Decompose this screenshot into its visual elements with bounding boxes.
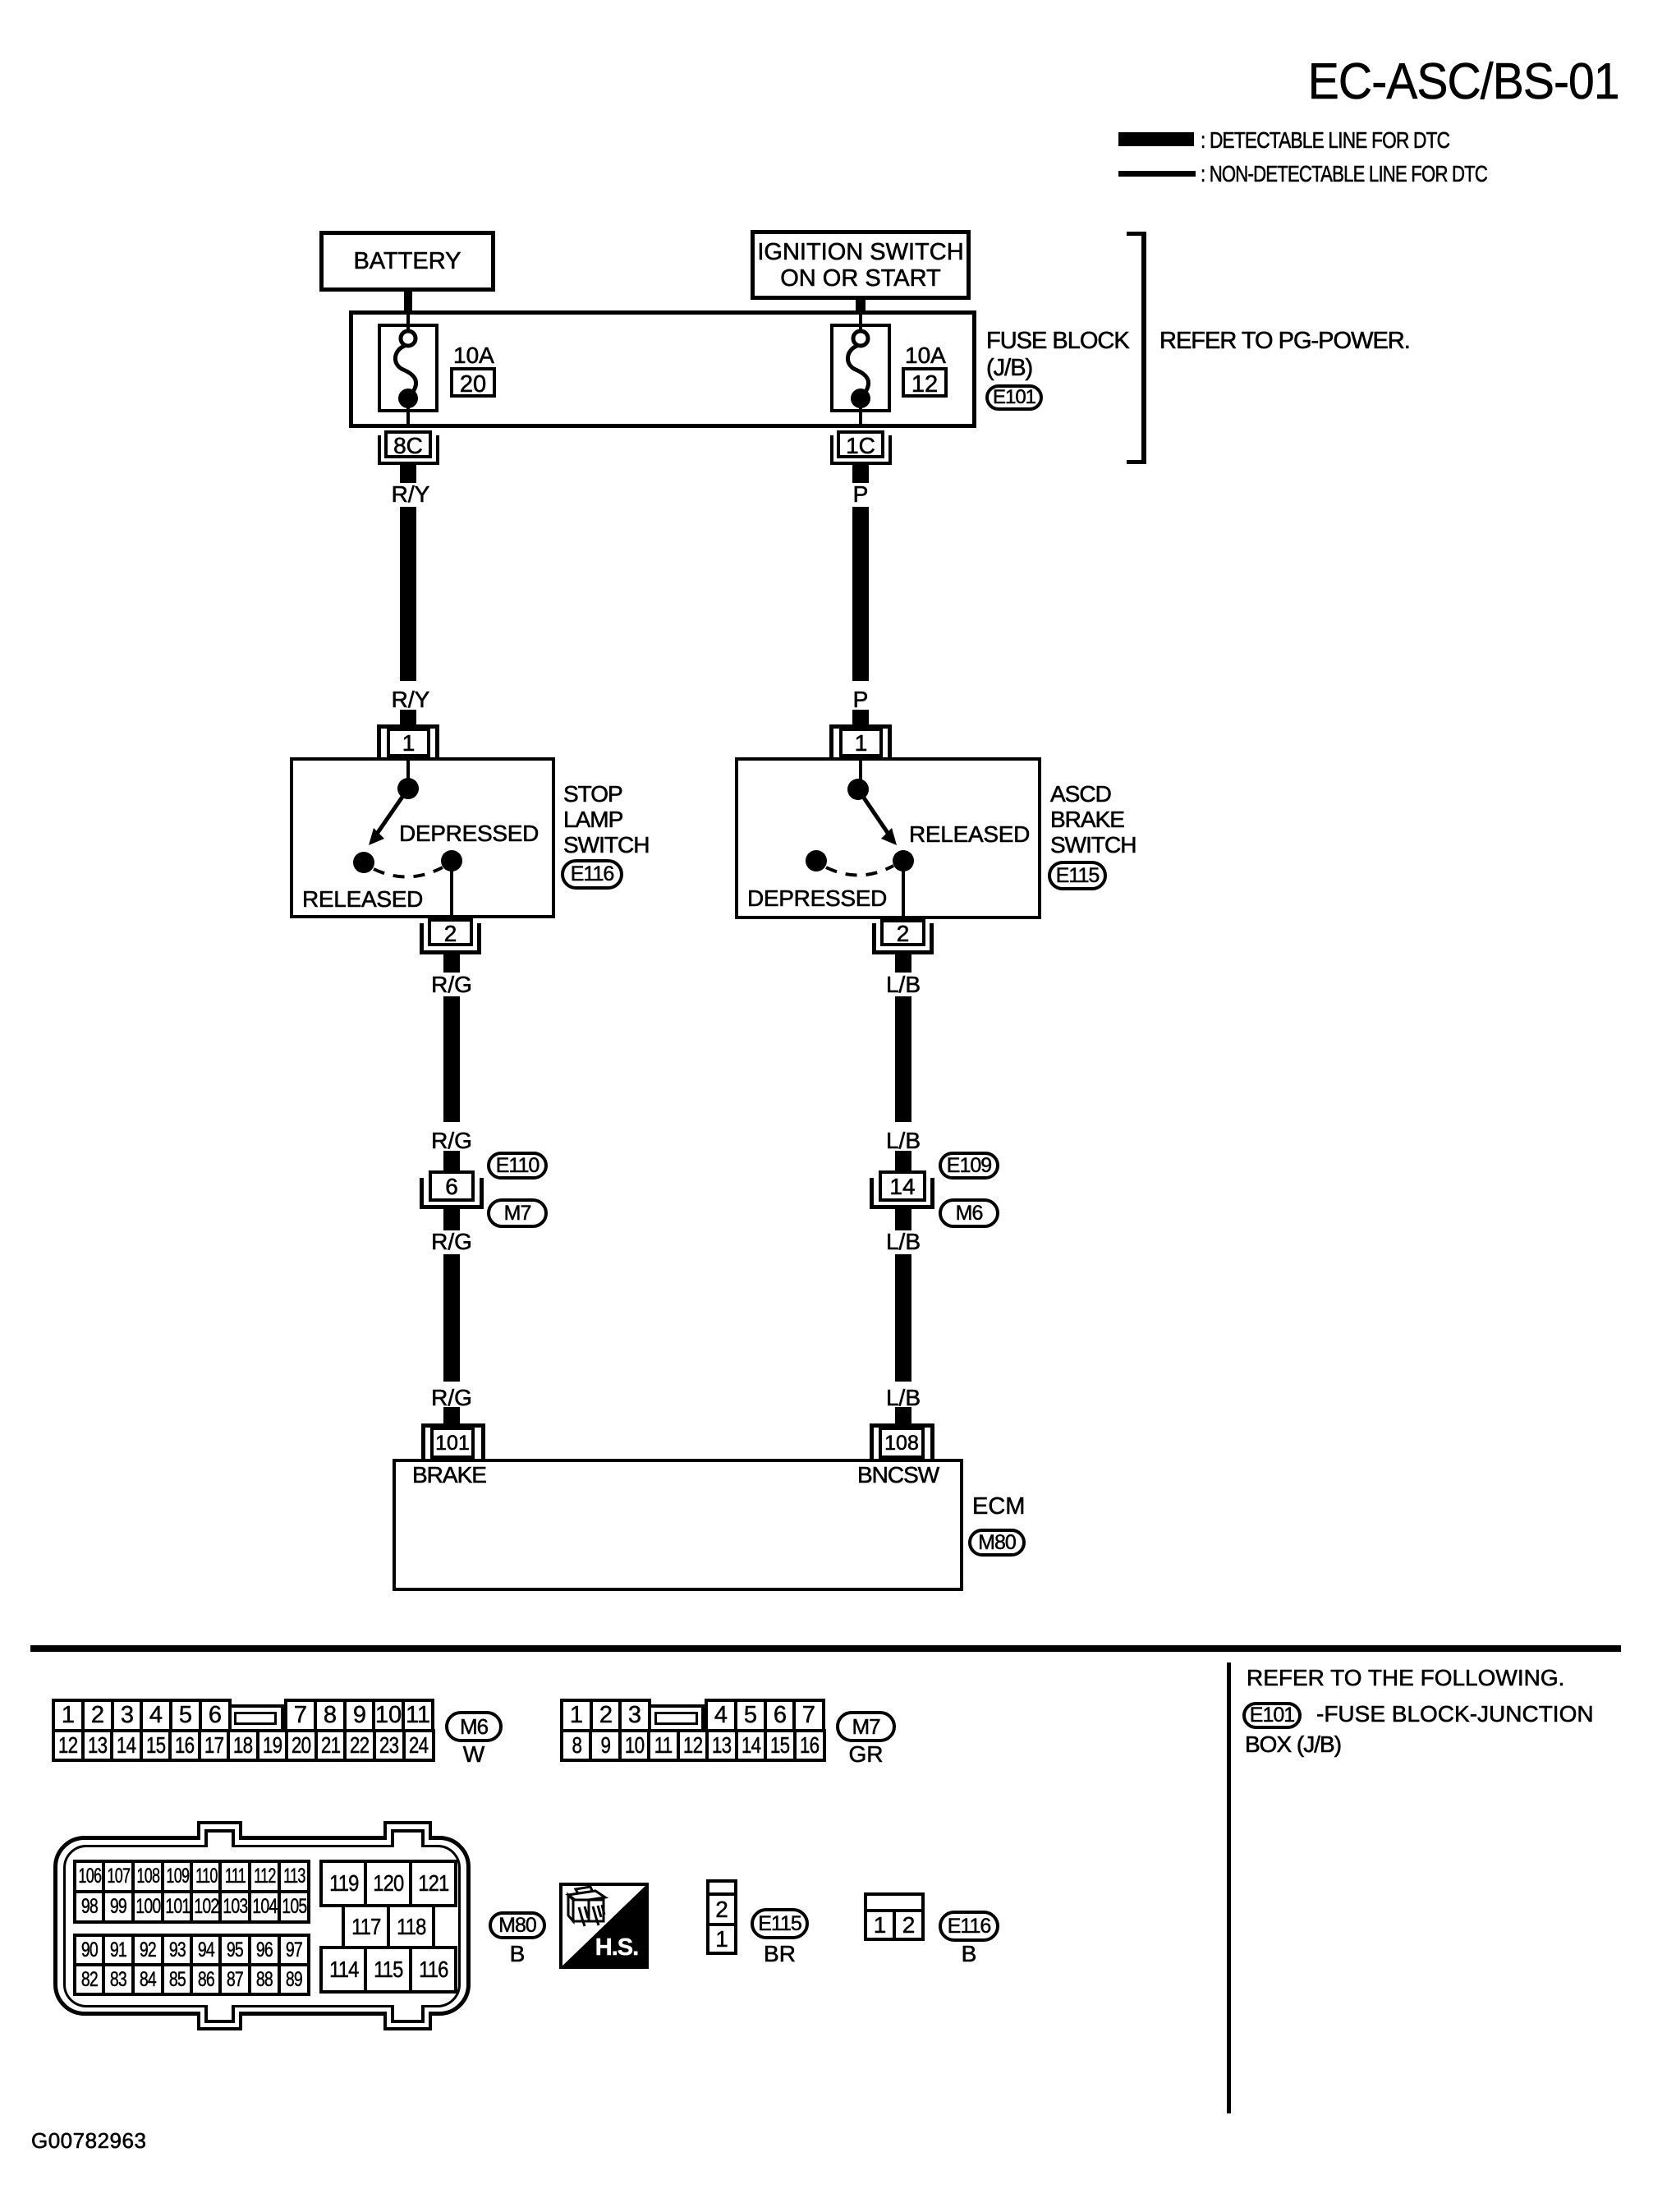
stop lamp switch box <box>290 757 555 918</box>
wire label P (lower) <box>826 688 895 713</box>
connector M7 pin grid <box>560 1699 593 1732</box>
stop lamp switch contacts <box>290 757 555 918</box>
connector 8C <box>384 430 432 458</box>
connector 2 of ASCD brake switch <box>880 919 925 946</box>
ECM box <box>393 1459 963 1591</box>
connector 1C <box>837 430 884 458</box>
connector ref M80 oval (bottom) <box>489 1911 546 1939</box>
wire R/Y detectable run <box>400 507 416 681</box>
connector M80 top tab 1 <box>197 1821 242 1840</box>
wire battery to fuse block <box>404 292 412 311</box>
label -FUSE BLOCK-JUNCTION <box>1316 1702 1594 1727</box>
label ECM <box>972 1494 1025 1520</box>
connector 6 (E110/M7) <box>429 1170 475 1202</box>
wire label R/G (2) <box>417 1129 486 1154</box>
connector M80 pin grid <box>73 1860 106 1893</box>
label W (M6 color) <box>445 1742 503 1768</box>
legend detectable line text <box>1201 128 1449 154</box>
label REFER TO THE FOLLOWING <box>1247 1666 1564 1691</box>
connector M80 top tab 2 <box>383 1821 432 1840</box>
wire label R/Y (upper) <box>376 482 445 508</box>
label STOP LAMP SWITCH <box>563 782 622 807</box>
wire stub above connector 1 (right) <box>852 710 869 725</box>
wire stub above connector 1 (left) <box>400 710 416 725</box>
connector 108 (ECM BNCSW) <box>870 1423 934 1428</box>
label FUSE BLOCK <box>986 329 1129 355</box>
legend detectable line sample bar <box>1118 132 1194 146</box>
fuse F20 housing <box>378 324 439 412</box>
connector ref M7 oval (bottom) <box>836 1711 896 1742</box>
wire stub above connector 14 <box>895 1151 911 1170</box>
fuse F20 symbol <box>374 307 448 430</box>
label BNCSW pin name <box>857 1463 939 1488</box>
wire L/B run 1 <box>895 996 911 1122</box>
bracket refer to pg-power <box>1141 232 1146 464</box>
connector ref E101 oval <box>985 384 1043 411</box>
wire label R/G (3) <box>417 1230 486 1255</box>
label BRAKE pin name <box>412 1463 486 1488</box>
fuse F20 rating 10A <box>453 343 494 369</box>
connector 1 of ASCD brake switch <box>829 724 892 729</box>
wire stub below connector 6 <box>443 1209 460 1230</box>
wire label R/G (1) <box>417 973 486 998</box>
connector ref E115 oval (bottom) <box>751 1908 809 1939</box>
vertical divider line <box>1227 1662 1231 2113</box>
label DEPRESSED (stop lamp switch) <box>399 821 539 847</box>
label DEPRESSED (ASCD brake switch) <box>747 886 887 912</box>
connector M80 shell <box>53 1836 471 2016</box>
wire stub below connector 14 <box>895 1209 911 1230</box>
title EC-ASC/BS-01 <box>1308 54 1618 110</box>
wire stub below 8C <box>400 465 416 483</box>
wire stub below connector 2 (left) <box>443 954 460 973</box>
connector M6 pin grid <box>52 1699 85 1732</box>
connector ref M7 oval <box>487 1198 548 1228</box>
ASCD brake switch contacts <box>735 757 1041 919</box>
wire stub above connector 6 <box>443 1151 460 1170</box>
connector 1 of stop lamp switch <box>377 724 439 729</box>
wire stub above connector 101 <box>443 1407 460 1423</box>
connector M80 bottom tab 1 <box>197 2012 242 2030</box>
fuse F12 symbol <box>826 307 900 430</box>
label GR (M7 color) <box>836 1742 896 1768</box>
ASCD brake switch box <box>735 757 1041 919</box>
wire L/B run 2 <box>895 1254 911 1382</box>
wire label L/B (3) <box>869 1230 938 1255</box>
connector 2 of stop lamp switch <box>428 918 473 946</box>
connector ref E116 oval <box>561 859 623 890</box>
connector E116 face view <box>864 1892 925 1912</box>
wire label R/G (4) <box>417 1386 486 1411</box>
label RELEASED (stop lamp switch) <box>302 887 423 913</box>
fuse F12 number box <box>902 367 948 398</box>
battery box <box>319 231 495 292</box>
ignition switch box <box>751 230 971 300</box>
wire stub above connector 108 <box>895 1407 911 1423</box>
label B (E116 color) <box>939 1942 999 1967</box>
wire stub below connector 2 (right) <box>895 954 911 973</box>
label REFER TO PG-POWER <box>1159 329 1410 355</box>
connector 14 (E109/M6) <box>879 1170 926 1202</box>
wire label L/B (4) <box>869 1386 938 1411</box>
connector ref E110 oval <box>487 1152 548 1180</box>
figure number G00782963 <box>31 2129 146 2153</box>
H.S. harness side view icon <box>559 1883 649 1969</box>
wire label P (upper) <box>826 482 895 508</box>
connector ref M80 oval <box>968 1529 1026 1557</box>
wire stub below 1C <box>852 465 869 483</box>
connector ref E101 oval (bottom) <box>1242 1702 1302 1729</box>
legend non-detectable line sample bar <box>1118 171 1196 177</box>
connector ref M6 oval (bottom) <box>445 1711 503 1742</box>
wire label L/B (2) <box>869 1129 938 1154</box>
connector E115 face view <box>706 1879 737 1896</box>
connector ref E115 oval <box>1048 861 1107 890</box>
wire label L/B (1) <box>869 973 938 998</box>
label ASCD BRAKE SWITCH <box>1050 782 1111 807</box>
legend non-detectable line text <box>1201 162 1487 187</box>
connector 101 (ECM BRAKE) <box>421 1423 485 1428</box>
label BOX (J/B) <box>1245 1732 1341 1758</box>
wire label R/Y (lower) <box>376 688 445 713</box>
wire R/G run 1 <box>443 996 460 1122</box>
fuse block (J/B) box <box>349 310 976 428</box>
label (J/B) <box>986 356 1032 382</box>
wire R/G run 2 <box>443 1254 460 1382</box>
label B (M80 color) <box>489 1942 546 1967</box>
wire ignition switch to fuse block <box>856 300 866 311</box>
wire P detectable run <box>852 507 869 681</box>
separator line <box>30 1645 1621 1652</box>
fuse F12 rating 10A <box>905 343 946 369</box>
fuse F12 housing <box>830 324 891 412</box>
connector ref E109 oval <box>939 1152 999 1180</box>
connector ref E116 oval (bottom) <box>939 1911 999 1942</box>
label RELEASED (ASCD brake switch) <box>909 822 1030 848</box>
connector M80 bottom tab 2 <box>383 2012 432 2030</box>
connector ref M6 oval <box>939 1198 999 1228</box>
label BR (E115 color) <box>751 1942 809 1967</box>
fuse F20 number box <box>450 367 496 398</box>
